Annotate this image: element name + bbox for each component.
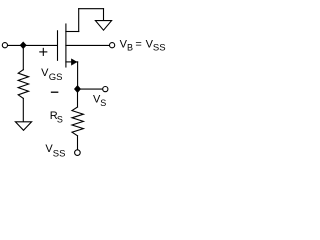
node gate junction <box>20 42 26 49</box>
label VSS (bottom) <box>45 143 65 159</box>
minus sign <box>52 91 58 93</box>
terminal VB <box>110 43 115 48</box>
wire resistor to ground <box>22 98 24 121</box>
ground (left) <box>15 122 31 131</box>
wire to VS terminal <box>78 88 103 90</box>
svg-text:B: B <box>127 43 133 53</box>
wire source to RS <box>77 89 79 107</box>
terminal VS <box>103 87 108 92</box>
wire drain top horizontal <box>79 8 104 10</box>
resistor RS <box>72 107 83 136</box>
label VB = VSS <box>120 39 166 54</box>
transistor M1 channel <box>65 24 67 67</box>
terminal VSS <box>75 150 81 156</box>
label VGS <box>41 67 62 83</box>
svg-text:S: S <box>100 98 106 108</box>
svg-text:S: S <box>57 115 63 125</box>
node source junction <box>74 86 80 93</box>
svg-text:SS: SS <box>153 43 166 54</box>
svg-text:SS: SS <box>53 149 66 160</box>
wire source riser <box>77 62 79 89</box>
transistor M1 source arrow <box>71 59 76 65</box>
transistor M1 body lead <box>66 44 110 46</box>
plus sign <box>40 51 47 53</box>
label VS <box>93 94 106 108</box>
transistor M1 source lead <box>66 61 78 63</box>
wire junction to resistor <box>22 45 24 69</box>
wire gate <box>8 44 58 46</box>
ground (top right) <box>95 21 111 31</box>
wire drain riser <box>78 9 80 32</box>
wire drop to top ground <box>103 9 105 21</box>
input terminal (gate) <box>2 43 7 48</box>
transistor M1 drain lead <box>66 31 79 33</box>
label RS <box>50 110 63 124</box>
wire RS to VSS terminal <box>77 136 79 150</box>
svg-text:=: = <box>135 39 141 51</box>
transistor M1 gate bar <box>57 31 59 61</box>
resistor R1 (left, gate to ground) <box>18 70 28 99</box>
svg-text:GS: GS <box>49 72 63 83</box>
